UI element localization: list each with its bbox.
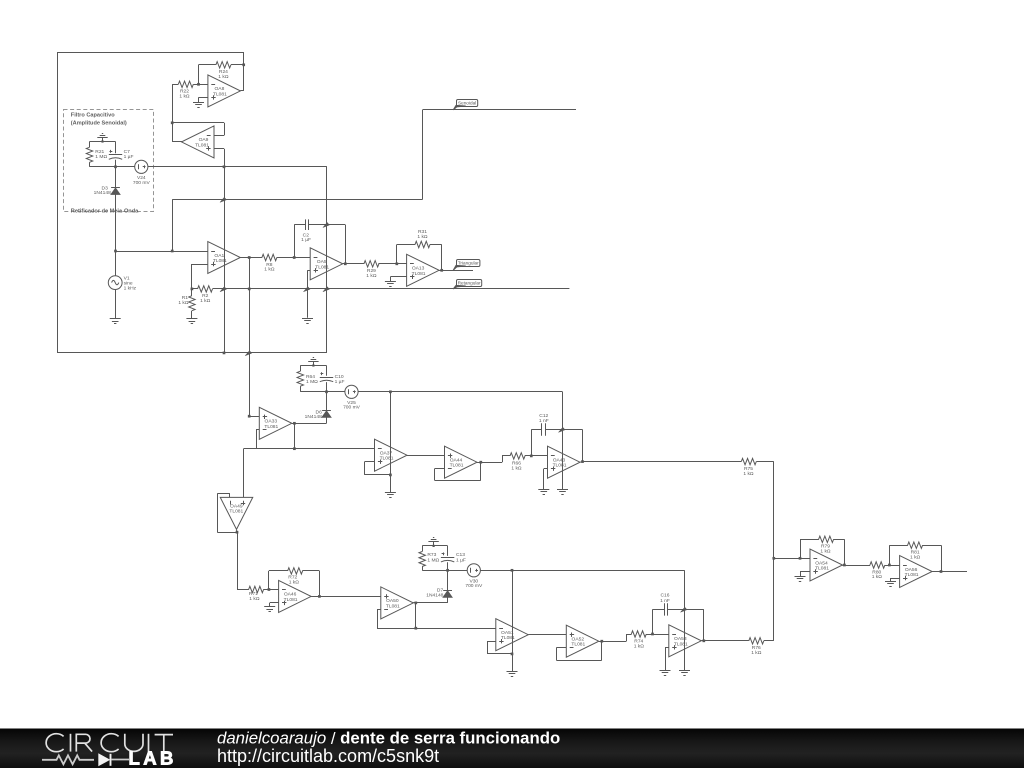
wire OA33 minus loop [256, 430, 259, 449]
wire OA56 minus input [889, 565, 899, 567]
op-amp OA37 [375, 439, 408, 471]
wire hop rail x OA5gnd [0, 0, 1, 1]
svg-text:TL081: TL081 [386, 603, 400, 609]
wire OA9 apex [172, 141, 182, 143]
wire box left [57, 52, 59, 353]
svg-text:OA50: OA50 [386, 598, 399, 604]
wire R64C10 top [300, 365, 326, 367]
wire OA52 minus loop [556, 640, 603, 661]
wire R75R76 vertical [772, 462, 775, 641]
svg-text:TL081: TL081 [674, 641, 688, 647]
CircuitLab logo [46, 734, 63, 752]
svg-text:1 kΩ: 1 kΩ [178, 300, 189, 306]
resistor R21 [86, 142, 107, 167]
svg-text:Retangular: Retangular [458, 281, 481, 286]
resistor R74 [626, 631, 654, 650]
wire OA50 out [413, 602, 417, 629]
wire C12 loop left [531, 430, 533, 456]
wire OA56 plus [891, 578, 900, 581]
op-amp OA33 [259, 407, 292, 439]
op-amp OA8 [208, 75, 241, 107]
diode D6 [305, 390, 331, 423]
wire hop netB2 x C2loop [323, 222, 330, 227]
wire netB vertical right [223, 167, 226, 354]
resistor R31 feedback [397, 229, 444, 272]
wire R73C13 bottom [422, 570, 467, 572]
wire OA8 out [240, 90, 243, 92]
svg-text:OA5: OA5 [317, 259, 327, 265]
wire OA13 plus [390, 277, 406, 282]
op-amp OA13 [407, 254, 440, 286]
resistor R29 [364, 261, 398, 279]
svg-text:1 nF: 1 nF [660, 598, 670, 604]
wire hop at R8-net crossing [245, 351, 252, 356]
svg-text:C12: C12 [539, 413, 548, 419]
wire y628 [377, 627, 496, 630]
wire OA52 out [599, 634, 627, 642]
wire D3 to V1 [114, 194, 117, 275]
wire V25gnd vertical [389, 392, 392, 492]
wire OA1 plus [192, 264, 208, 289]
svg-text:OA37: OA37 [380, 450, 393, 456]
svg-text:http://circuitlab.com/c5snk9t: http://circuitlab.com/c5snk9t [217, 746, 439, 766]
wire OA37 plus loop [365, 462, 391, 475]
svg-text:1 kΩ: 1 kΩ [634, 644, 645, 650]
svg-text:1 kΩ: 1 kΩ [820, 548, 831, 554]
svg-text:1N4148: 1N4148 [426, 592, 443, 598]
svg-text:1 kΩ: 1 kΩ [264, 267, 275, 273]
ground OA8 [193, 103, 204, 108]
wire OA5 minus input [294, 257, 310, 259]
wire OA37 out [407, 455, 445, 457]
wire C12 loop right [581, 430, 584, 463]
svg-text:700 mV: 700 mV [465, 583, 483, 589]
diode D3 [94, 167, 120, 196]
flag Triangular [453, 260, 480, 271]
wire C2 loop right [344, 225, 347, 265]
svg-text:TL081: TL081 [380, 456, 394, 462]
resistor R64 [297, 366, 318, 392]
svg-text:1 kΩ: 1 kΩ [751, 650, 762, 656]
svg-text:1 kΩ: 1 kΩ [511, 466, 522, 472]
svg-text:700 mV: 700 mV [343, 405, 361, 411]
svg-text:OA13: OA13 [412, 266, 425, 272]
svg-text:1 kΩ: 1 kΩ [366, 273, 377, 279]
ground V1 [110, 319, 121, 324]
small ground filter top [97, 134, 107, 143]
op-amp OA54 [810, 549, 843, 581]
svg-text:OA54: OA54 [815, 560, 828, 566]
svg-text:1 kΩ: 1 kΩ [249, 596, 260, 602]
svg-text:Retificador de Meia-Onda: Retificador de Meia-Onda [71, 208, 139, 214]
svg-text:LAB: LAB [129, 747, 177, 768]
resistor R24 [199, 62, 244, 80]
op-amp OA50 [381, 587, 414, 619]
resistor R2 [198, 286, 213, 304]
svg-text:OA56: OA56 [905, 567, 918, 573]
ground OA13 plus [385, 282, 396, 287]
svg-text:OA33: OA33 [265, 419, 278, 425]
wire V30gnd vertical 2 [684, 570, 686, 670]
svg-text:OA9: OA9 [199, 137, 209, 143]
svg-text:OA49: OA49 [230, 503, 243, 509]
resistor R81 feedback [889, 542, 942, 573]
resistor R80 [870, 562, 891, 580]
wire OA54 out [843, 565, 871, 567]
small ground R73 top [428, 538, 438, 548]
voltage source V1 sine [108, 275, 136, 291]
wire OA46 minus input [269, 589, 279, 591]
wire hop V30 x C16 [681, 607, 688, 612]
voltage source V24 [133, 160, 151, 186]
ground V25 net [557, 490, 568, 495]
wire hop OA5plus x rail [304, 287, 311, 292]
wire hop netB x Senoidal [220, 197, 227, 202]
op-amp OA53 [669, 625, 702, 657]
svg-text:700 mV: 700 mV [133, 180, 151, 186]
op-amp OA1 [208, 242, 241, 274]
svg-text:OA46: OA46 [284, 592, 297, 598]
resistor R71 [237, 586, 270, 602]
wire hop netB x rail [220, 287, 227, 292]
wire OA33 plus input [249, 416, 259, 418]
svg-text:R64: R64 [306, 374, 315, 380]
svg-text:R74: R74 [634, 639, 643, 645]
svg-text:1 kΩ: 1 kΩ [910, 554, 921, 560]
svg-text:1 kΩ: 1 kΩ [872, 574, 883, 580]
capacitor C7 [109, 142, 134, 167]
capacitor C13 [441, 546, 466, 570]
wire OA43 plus [544, 469, 548, 490]
svg-text:C16: C16 [661, 592, 670, 598]
footer bar [0, 729, 1024, 768]
wire hop netB2 x rail [323, 287, 330, 292]
svg-text:1 kΩ: 1 kΩ [218, 74, 229, 80]
svg-text:R31: R31 [418, 229, 427, 235]
wire OA53 out [701, 640, 749, 642]
diode D7 [426, 569, 452, 603]
wire rail left [191, 288, 198, 291]
resistor R72 feedback [269, 568, 321, 598]
svg-text:OA51: OA51 [501, 630, 514, 636]
svg-text:1N4148: 1N4148 [94, 190, 111, 196]
svg-text:TL081: TL081 [905, 572, 919, 578]
svg-text:OA1: OA1 [214, 253, 224, 259]
svg-text:1 kΩ: 1 kΩ [200, 298, 211, 304]
op-amp OA44 [445, 446, 478, 478]
svg-text:TL081: TL081 [450, 463, 464, 469]
wire OA1 out down [248, 258, 251, 418]
wire V24 out [148, 166, 327, 168]
capacitor C10 [320, 366, 345, 392]
wire OA54 minus input [774, 557, 810, 560]
svg-text:1 kΩ: 1 kΩ [289, 580, 300, 586]
wire OA49 out [237, 530, 238, 590]
wire box top [57, 52, 244, 54]
ground OA51 [507, 672, 518, 677]
ground OA37 [385, 493, 396, 498]
svg-text:1 µF: 1 µF [124, 154, 134, 160]
wire OA33 out branch down [294, 423, 296, 448]
wire mid rail 448 [244, 447, 375, 450]
wire hop V25 x C12 [559, 427, 566, 432]
resistor R1 [178, 289, 195, 319]
op-amp OA52 [566, 625, 599, 657]
wire OA8 output vertical [242, 52, 245, 91]
svg-text:TL081: TL081 [284, 597, 298, 603]
wire OA8 plus [199, 97, 208, 102]
wire OA1 out [240, 256, 250, 259]
wire OA53 minus input [653, 634, 669, 636]
wire OA13 minus input [397, 263, 407, 265]
capacitor C12 [531, 413, 582, 436]
svg-text:1 µF: 1 µF [301, 237, 311, 243]
wire filter bottom node [90, 165, 135, 168]
wire OA56 out [932, 571, 967, 573]
svg-text:C10: C10 [335, 374, 344, 380]
wire senoidal left vertical [171, 200, 174, 253]
svg-text:R72: R72 [288, 575, 297, 581]
svg-text:OA8: OA8 [215, 86, 225, 92]
svg-text:OA52: OA52 [572, 636, 585, 642]
wire OA33 out [292, 422, 327, 425]
ground OA53 plus [660, 671, 671, 676]
ground OA43 plus [538, 490, 549, 495]
wire OA51 plus loop [487, 641, 512, 654]
capacitor C2 [294, 219, 345, 242]
svg-text:TL081: TL081 [213, 258, 227, 264]
ground OA54 plus [795, 577, 806, 582]
wire netB down right [326, 167, 328, 353]
svg-text:(Amplitude Senoidal): (Amplitude Senoidal) [71, 120, 127, 126]
wire V1 to ground [115, 290, 117, 319]
svg-text:OA44: OA44 [450, 457, 463, 463]
svg-text:TL081: TL081 [412, 271, 426, 277]
svg-text:1 nF: 1 nF [539, 418, 549, 424]
svg-text:Senoidal: Senoidal [458, 101, 476, 106]
svg-text:Triangular: Triangular [458, 261, 479, 266]
wire OA50 out to D7 [416, 602, 448, 604]
wire V30gnd vertical [511, 570, 514, 671]
wire OA43 out [580, 461, 741, 464]
capacitor C16 [653, 592, 704, 615]
wire OA46 out [311, 596, 381, 598]
wire OA43 minus input [531, 455, 547, 457]
wire filter top node [90, 141, 116, 143]
resistor R76 [749, 638, 774, 656]
wire OA50 minus loop [377, 609, 381, 628]
wire OA8 minus [199, 84, 208, 86]
svg-text:1 kΩ: 1 kΩ [417, 234, 428, 240]
svg-text:1 kHz: 1 kHz [124, 285, 137, 291]
wire R24 feedback [197, 65, 200, 86]
ground OA46 plus [264, 607, 275, 612]
svg-text:TL081: TL081 [264, 424, 278, 430]
svg-text:1 µF: 1 µF [456, 557, 466, 563]
svg-text:OA43: OA43 [553, 457, 566, 463]
wire OA9 out vertical [171, 84, 174, 142]
wire R73C13 top [422, 545, 447, 547]
resistor R73 [419, 546, 440, 570]
svg-text:TL081: TL081 [553, 463, 567, 469]
wire OA1 minus input [116, 251, 208, 253]
wire senoidal horizontal [172, 199, 422, 201]
ground OA56 plus [885, 582, 896, 587]
resistor R79 feedback [800, 536, 846, 566]
op-amp OA49 [220, 497, 253, 529]
wire senoidal top [423, 109, 577, 111]
wire C16 loop left [652, 609, 654, 634]
wire OA44 out [477, 456, 503, 463]
wire OA49 minus loop [217, 494, 238, 534]
wire OA53 plus [665, 647, 669, 670]
wire C16 loop right [702, 609, 705, 642]
svg-text:1 kΩ: 1 kΩ [743, 471, 754, 477]
resistor R22 [172, 81, 198, 99]
svg-text:1 MΩ: 1 MΩ [95, 154, 107, 160]
resistor R75 [741, 458, 774, 476]
ground V30 net [679, 671, 690, 676]
wire OA51 out [528, 634, 566, 636]
wire OA44 minus loop [435, 461, 483, 481]
flag Senoidal [453, 100, 478, 110]
op-amp OA5 [310, 248, 343, 280]
small ground R64 top [308, 358, 318, 367]
voltage source V25 [343, 385, 361, 410]
wire V25 out [358, 390, 562, 393]
svg-text:C13: C13 [456, 552, 465, 558]
svg-text:R73: R73 [427, 552, 436, 558]
svg-text:1 µF: 1 µF [335, 379, 345, 385]
flag Retangular [453, 280, 482, 289]
svg-text:TL081: TL081 [501, 635, 515, 641]
ground R1 [186, 319, 197, 324]
wire OA54 plus [800, 572, 810, 577]
svg-text:TL081: TL081 [315, 264, 329, 270]
wire V30 out [480, 569, 684, 572]
resistor R66 [502, 453, 533, 472]
wire OA9 plus [214, 149, 225, 169]
svg-text:TL081: TL081 [229, 509, 243, 515]
wire OA13 out [439, 270, 473, 272]
wire C2 loop left [294, 225, 296, 258]
wire OA46 plus [270, 603, 279, 607]
svg-text:1 kΩ: 1 kΩ [179, 93, 190, 99]
wire R64C10 bottom [300, 391, 345, 393]
wire V25gnd vertical 2 [562, 392, 564, 489]
svg-text:TL081: TL081 [815, 565, 829, 571]
wire rail long [213, 288, 570, 290]
op-amp OA51 [496, 619, 529, 651]
wire OA5 plus [308, 270, 311, 318]
wire box bottom [57, 352, 327, 354]
svg-text:1 MΩ: 1 MΩ [427, 557, 439, 563]
svg-text:TL081: TL081 [213, 91, 227, 97]
wire OA9 minus loop [172, 123, 224, 136]
svg-text:1 MΩ: 1 MΩ [306, 379, 318, 385]
svg-text:Filtro Capacitivo: Filtro Capacitivo [71, 113, 115, 119]
wire OA5 out [343, 263, 365, 265]
svg-text:1N4148: 1N4148 [305, 414, 322, 420]
voltage source V30 [465, 564, 483, 589]
op-amp OA46 [279, 580, 312, 612]
op-amp OA56 [900, 556, 933, 588]
wire OA49 plus vertical [243, 449, 245, 498]
ground OA5 plus [302, 319, 313, 324]
op-amp OA43 [548, 446, 581, 478]
wire senoidal right vertical [422, 110, 424, 200]
svg-text:TL081: TL081 [195, 142, 209, 148]
svg-text:TL081: TL081 [571, 642, 585, 648]
op-amp OA9 [182, 126, 215, 158]
resistor R8 [249, 254, 295, 272]
dashed box Filtro Capacitivo [64, 110, 154, 215]
